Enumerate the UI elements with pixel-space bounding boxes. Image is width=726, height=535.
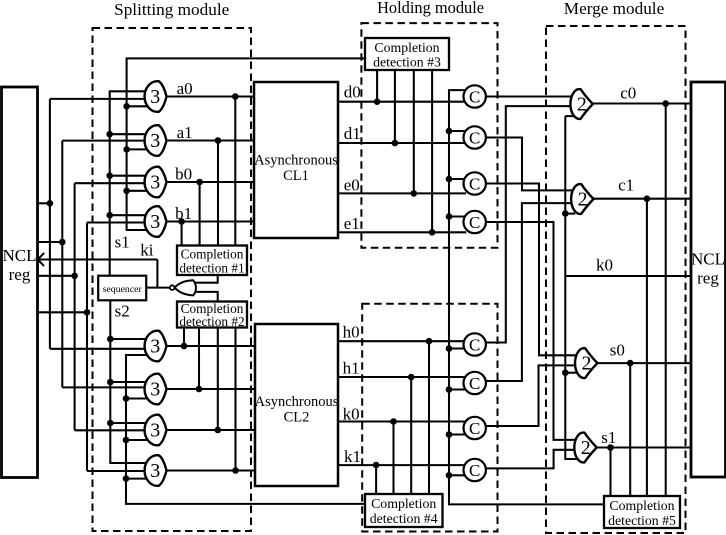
- svg-text:3: 3: [150, 460, 160, 482]
- svg-text:h0: h0: [343, 323, 360, 342]
- block CD4 Completion detection #4: [365, 494, 443, 527]
- block U2 Asynchronous CL2: [255, 324, 338, 486]
- wire b0 from G3 to CL1 and CD1: [167, 181, 255, 183]
- svg-text:C: C: [469, 419, 480, 438]
- threshold gate G1 a0 rail (th23, labelled 3): [145, 81, 167, 112]
- wire s2 select from sequencer to gates G5-G8: [110, 300, 149, 463]
- svg-text:Splitting module: Splitting module: [114, 0, 229, 19]
- threshold gate G7 (th23, labelled 3): [145, 415, 167, 446]
- svg-text:reg: reg: [9, 265, 31, 284]
- svg-text:2: 2: [581, 437, 591, 459]
- threshold gate G3 b0 rail (th23, labelled 3): [145, 167, 167, 198]
- svg-text:e0: e0: [344, 176, 360, 195]
- svg-text:NCL: NCL: [3, 246, 37, 265]
- block U1 Asynchronous CL1: [254, 82, 338, 238]
- svg-text:3: 3: [150, 211, 160, 233]
- threshold gate M1 for c0 (th22, labelled 2): [570, 89, 592, 119]
- wire s1 select from sequencer to gates G1-G4: [110, 91, 149, 275]
- C-element C1: [464, 85, 486, 107]
- svg-text:d1: d1: [344, 124, 361, 143]
- wire s0 from M3 to right register and CD5: [597, 362, 691, 364]
- svg-text:3: 3: [150, 420, 160, 442]
- svg-text:c1: c1: [618, 176, 634, 195]
- wire CD1 output to NOR input 1: [188, 275, 218, 283]
- svg-text:k0: k0: [343, 405, 360, 424]
- wire C1 output to merge gate M1 input: [486, 95, 574, 97]
- svg-text:2: 2: [582, 353, 592, 375]
- wire data rail A0 from left register to G1 and G5: [38, 202, 50, 204]
- threshold gate G4 b1 rail (th23, labelled 3): [145, 206, 167, 237]
- svg-text:reg: reg: [697, 269, 719, 288]
- wire G8 output to CL2 and CD2: [167, 469, 256, 471]
- threshold gate G6 (th23, labelled 3): [145, 374, 167, 405]
- block CD2 Completion detection #2: [177, 302, 247, 328]
- threshold gate G8 (th23, labelled 3): [145, 455, 167, 486]
- svg-text:3: 3: [150, 86, 160, 108]
- svg-text:C: C: [469, 87, 480, 106]
- block CD3 Completion detection #3: [365, 38, 449, 70]
- svg-text:Completion: Completion: [609, 498, 674, 513]
- C-element C3: [464, 172, 486, 194]
- wire C5 output to merge gate M1 input: [486, 106, 574, 342]
- threshold gate M3 for s0 (th22, labelled 2): [575, 348, 597, 378]
- wire C2 output to merge gate M2 input: [485, 138, 574, 191]
- C-element C2: [464, 126, 486, 148]
- svg-text:C: C: [469, 335, 480, 354]
- svg-text:detection #5: detection #5: [608, 513, 676, 528]
- wire h0 from CL2 to C5 and CD4: [338, 340, 465, 342]
- wire C6 output to merge gate M2 input: [486, 203, 575, 381]
- svg-text:3: 3: [150, 336, 160, 358]
- wire G5 output to CL2 and CD2: [167, 345, 256, 347]
- wire feedback from CD3 to gates G1-G4 third inputs: [127, 58, 365, 230]
- svg-text:2: 2: [578, 189, 588, 211]
- svg-text:c0: c0: [620, 84, 636, 103]
- wire C3 output to merge gate M3 input: [486, 184, 579, 356]
- wire e0 from CL1 to C3 and CD3: [338, 192, 466, 194]
- left register NCL reg: [2, 87, 38, 478]
- wire c0 from M1 to right register and CD5: [593, 102, 691, 104]
- right register NCL reg: [691, 82, 726, 477]
- wire C4 output to merge gate M4 input: [486, 222, 579, 440]
- merge module dashed boundary: [546, 26, 686, 533]
- wire G7 output to CL2 and CD2: [167, 429, 256, 431]
- svg-text:Asynchronous: Asynchronous: [254, 153, 338, 169]
- wire CD2 output to NOR input 2: [188, 292, 218, 302]
- svg-text:b0: b0: [175, 165, 192, 184]
- wire data rail B1 from left register to G4 and G8: [38, 311, 88, 313]
- svg-text:s1: s1: [601, 428, 616, 447]
- wire C8 output to merge gate M4 input: [486, 450, 580, 469]
- wire e1 from CL1 to C4 and CD3: [338, 231, 466, 233]
- wire h1 from CL2 to C6 and CD4: [338, 376, 465, 378]
- holding module lower dashed boundary: [362, 304, 497, 532]
- C-element C4: [464, 211, 486, 233]
- svg-text:detection #2: detection #2: [179, 314, 244, 329]
- svg-text:Completion: Completion: [374, 40, 439, 55]
- threshold gate G5 (th23, labelled 3): [145, 331, 167, 362]
- svg-text:detection #4: detection #4: [370, 511, 438, 526]
- svg-text:CL1: CL1: [283, 168, 309, 184]
- svg-text:C: C: [469, 461, 480, 480]
- svg-text:NCL: NCL: [691, 250, 725, 269]
- wire CD5 output request line to C-elements: [449, 90, 604, 504]
- wire a1 from G2 to CL1 and CD1: [167, 139, 255, 141]
- wire ki from NOR output to left register (arrow): [39, 258, 158, 260]
- threshold gate G2 a1 rail (th23, labelled 3): [145, 125, 167, 156]
- svg-text:C: C: [469, 174, 480, 193]
- svg-text:CL2: CL2: [284, 410, 310, 426]
- C-element C6: [464, 372, 486, 394]
- wire k0 acknowledge from right register to merge gate enables: [565, 275, 691, 277]
- svg-text:C: C: [469, 128, 480, 147]
- wire a0 from G1 to CL1 and CD1: [167, 95, 255, 97]
- wire s1 from M4 to right register and CD5: [597, 446, 691, 448]
- svg-text:Completion: Completion: [371, 496, 436, 511]
- svg-text:Completion: Completion: [181, 247, 244, 262]
- svg-text:Asynchronous: Asynchronous: [255, 394, 339, 410]
- wire C7 output to merge gate M3 input: [486, 365, 580, 426]
- svg-text:detection #1: detection #1: [179, 261, 244, 276]
- svg-text:3: 3: [150, 172, 160, 194]
- svg-text:Merge module: Merge module: [564, 0, 665, 18]
- svg-text:2: 2: [577, 94, 587, 116]
- svg-text:detection #3: detection #3: [373, 55, 441, 70]
- wire NOR gate output to sequencer: [146, 287, 170, 289]
- svg-text:a1: a1: [177, 123, 193, 142]
- block U3 sequencer: [98, 276, 146, 301]
- threshold gate M4 for s1 (th22, labelled 2): [574, 433, 596, 463]
- svg-text:3: 3: [150, 130, 160, 152]
- wire k0 from CL2 to C7 and CD4: [338, 420, 465, 422]
- svg-text:s1: s1: [115, 233, 130, 252]
- svg-text:C: C: [469, 374, 480, 393]
- threshold gate M2 for c1 (th22, labelled 2): [571, 184, 593, 214]
- C-element C8: [464, 459, 486, 481]
- wire b1 from G4 to CL1 and CD1: [167, 220, 255, 222]
- C-element C5: [464, 333, 486, 355]
- svg-text:sequencer: sequencer: [103, 284, 143, 295]
- svg-text:e1: e1: [344, 214, 360, 233]
- block CD1 Completion detection #1: [177, 246, 247, 276]
- wire k1 from CL2 to C8 and CD4: [338, 464, 465, 466]
- splitting module dashed boundary: [93, 28, 252, 531]
- wire data rail B0 from left register to G3 and G7: [38, 275, 75, 277]
- wire feedback from CD4 to gates G5-G8 third inputs: [126, 355, 365, 504]
- svg-text:ki: ki: [140, 241, 154, 260]
- svg-text:d0: d0: [344, 83, 361, 102]
- holding module upper dashed boundary: [361, 23, 497, 248]
- wire data rail A1 from left register to G2 and G6: [38, 241, 63, 243]
- block CD5 Completion detection #5: [604, 496, 680, 528]
- wire d1 from CL1 to C2 and CD3: [338, 142, 466, 144]
- svg-text:C: C: [469, 213, 480, 232]
- svg-text:s0: s0: [610, 341, 625, 360]
- svg-text:h1: h1: [343, 359, 360, 378]
- svg-text:k0: k0: [596, 256, 613, 275]
- wire d0 from CL1 to C1 and CD3: [338, 101, 466, 103]
- svg-text:s2: s2: [115, 302, 130, 321]
- svg-text:3: 3: [150, 379, 160, 401]
- svg-text:a0: a0: [177, 79, 193, 98]
- C-element C7: [464, 417, 486, 439]
- wire G6 output to CL2 and CD2: [167, 388, 256, 390]
- gate U4 completion-merge NOR (left facing): [175, 280, 196, 295]
- svg-text:k1: k1: [344, 447, 361, 466]
- wire c1 from M2 to right register and CD5: [594, 198, 692, 200]
- svg-text:Holding module: Holding module: [377, 0, 484, 17]
- svg-text:b1: b1: [175, 204, 192, 223]
